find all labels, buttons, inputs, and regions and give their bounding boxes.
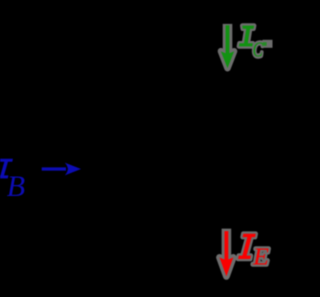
svg-text:C: C: [253, 38, 264, 62]
svg-text:B: B: [7, 170, 25, 203]
svg-text:E: E: [252, 243, 269, 270]
